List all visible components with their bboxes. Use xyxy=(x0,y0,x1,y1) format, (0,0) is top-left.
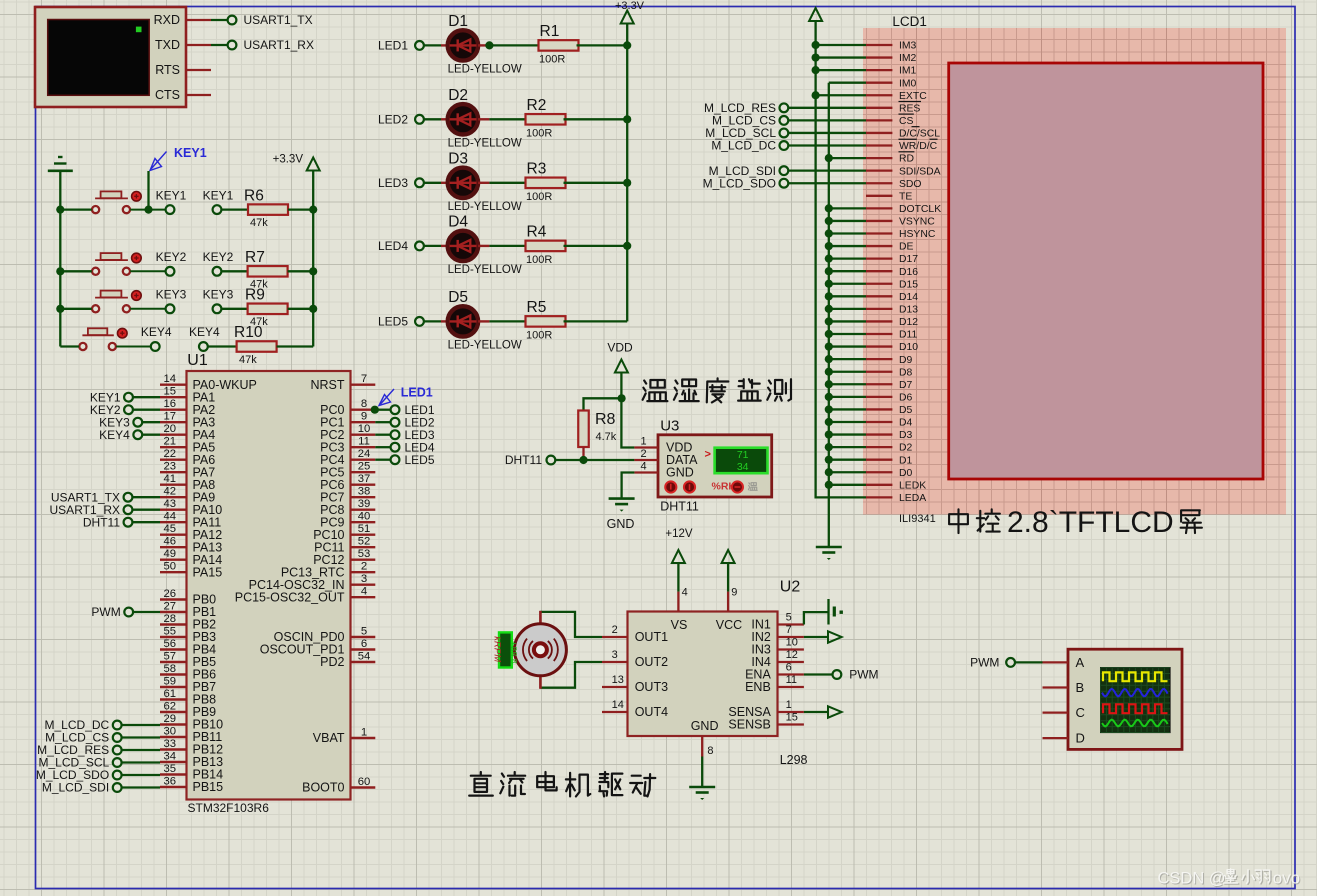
U1 pin PB9 (62) xyxy=(160,711,187,713)
svg-text:4.7k: 4.7k xyxy=(596,431,617,443)
svg-text:41: 41 xyxy=(164,473,177,485)
U1 pin PB11 (30) xyxy=(160,736,187,738)
U1 pin PC10 (51) xyxy=(351,534,376,536)
wire M_LCD_CS to LCD xyxy=(788,119,866,121)
svg-text:NRST: NRST xyxy=(310,378,344,392)
wire D2 xyxy=(829,446,866,448)
overline RD xyxy=(899,151,915,153)
LCD1 pin D0 xyxy=(866,471,892,473)
wire LCD GND rail xyxy=(829,83,866,547)
svg-text:51: 51 xyxy=(358,523,371,535)
svg-text:44: 44 xyxy=(164,511,177,523)
wire IM1 xyxy=(816,69,866,71)
terminal KEY3 (resistor side) xyxy=(213,304,222,313)
svg-text:33: 33 xyxy=(164,738,177,750)
svg-text:D/C/SCL: D/C/SCL xyxy=(899,129,940,140)
junction ground rail KEY3 row xyxy=(56,305,64,313)
svg-text:HSYNC: HSYNC xyxy=(899,229,936,240)
svg-text:5: 5 xyxy=(786,612,792,624)
terminal LED2 (U1 side) xyxy=(375,421,390,423)
svg-text:49: 49 xyxy=(164,548,177,560)
LCD1 pin HSYNC xyxy=(866,232,892,234)
svg-text:12: 12 xyxy=(786,649,798,661)
wire U3 GND to ground xyxy=(622,473,635,499)
svg-text:39: 39 xyxy=(358,498,371,510)
U2 pin SENSB (15) xyxy=(778,723,804,725)
svg-text:7: 7 xyxy=(361,373,367,385)
wire KEY2 row left xyxy=(60,270,92,272)
svg-text:34: 34 xyxy=(737,461,749,473)
svg-text:TE: TE xyxy=(899,191,912,202)
svg-text:D3: D3 xyxy=(448,150,468,167)
wire motor bottom to OUT2 xyxy=(540,662,602,688)
svg-text:>: > xyxy=(705,449,711,461)
junction GND rail D17 xyxy=(825,255,833,263)
scope trace B (blue) xyxy=(1102,689,1168,697)
wire HSYNC xyxy=(829,232,866,234)
svg-text:35: 35 xyxy=(164,763,177,775)
svg-text:53: 53 xyxy=(358,548,371,560)
svg-text:D4: D4 xyxy=(448,213,468,230)
svg-text:LED1: LED1 xyxy=(401,385,433,399)
LCD1 pin EXTC xyxy=(866,94,892,96)
svg-text:LED-YELLOW: LED-YELLOW xyxy=(448,264,522,276)
svg-text:LED-YELLOW: LED-YELLOW xyxy=(448,339,522,351)
svg-text:59: 59 xyxy=(164,676,177,688)
svg-text:U3: U3 xyxy=(660,418,679,435)
svg-text:DHT11: DHT11 xyxy=(505,453,542,467)
svg-text:D3: D3 xyxy=(899,430,913,441)
svg-text:LED-YELLOW: LED-YELLOW xyxy=(448,63,522,75)
arrow terminal IN2 xyxy=(828,631,842,642)
svg-text:KEY1: KEY1 xyxy=(174,146,207,160)
junction GND rail D11 xyxy=(825,330,833,338)
wire KEY4 row right xyxy=(116,346,151,348)
U3 body (DHT11) xyxy=(658,435,772,497)
oscilloscope pin C xyxy=(1043,711,1069,713)
svg-text:LED5: LED5 xyxy=(405,453,435,467)
LCD1 pin D11 xyxy=(866,333,892,335)
wire label LED1 (blue) xyxy=(381,389,395,404)
svg-text:DHT11: DHT11 xyxy=(660,500,699,514)
overline RES xyxy=(899,101,922,103)
wire M_LCD_RES to U1 xyxy=(122,749,160,751)
wire IN2 to arrow xyxy=(804,636,828,638)
U2 pin ENA (6) xyxy=(778,673,804,675)
svg-text:U2: U2 xyxy=(780,579,801,596)
U1 pin PA7 (23) xyxy=(160,471,187,473)
oscilloscope body xyxy=(1068,649,1182,749)
svg-text:22: 22 xyxy=(164,448,177,460)
wire KEY3 row right xyxy=(130,308,165,310)
wire LED3 to D3 xyxy=(424,182,441,184)
wire KEY1 row left xyxy=(60,208,92,210)
svg-text:KEY2: KEY2 xyxy=(156,250,187,264)
LCD1 pin D16 xyxy=(866,270,892,272)
U1 pin PC5 (25) xyxy=(351,471,376,473)
svg-text:DHT11: DHT11 xyxy=(83,515,120,529)
svg-text:+3.3V: +3.3V xyxy=(273,154,304,166)
svg-text:R7: R7 xyxy=(245,249,265,266)
svg-text:IM0: IM0 xyxy=(899,78,917,89)
svg-text:D15: D15 xyxy=(899,279,918,290)
wire KEY4 to U1 xyxy=(142,434,160,436)
svg-text:LED-YELLOW: LED-YELLOW xyxy=(448,201,522,213)
virtual terminal VT1 body xyxy=(35,7,186,107)
wire R1 to +3.3V rail xyxy=(577,44,628,46)
LCD1 pin LEDK xyxy=(866,484,892,486)
junction GND rail D6 xyxy=(825,393,833,401)
wire U2 GND to ground xyxy=(701,757,703,788)
svg-text:20: 20 xyxy=(164,423,177,435)
U1 pin BOOT0 (60) xyxy=(351,786,376,788)
wire D4 xyxy=(829,421,866,423)
svg-text:R6: R6 xyxy=(244,188,264,205)
wire M_LCD_RES to LCD xyxy=(788,107,866,109)
wire IN1 to battery xyxy=(804,612,828,624)
U1 pin PB3 (55) xyxy=(160,636,187,638)
svg-text:6: 6 xyxy=(361,638,367,650)
U1 pin OSCIN_PD0 (5) xyxy=(351,636,376,638)
junction GND rail RD xyxy=(825,154,833,162)
LCD1 pin RES xyxy=(866,107,892,109)
U1 pin PB12 (33) xyxy=(160,748,187,750)
U1 pin PC9 (40) xyxy=(351,521,376,523)
svg-text:55: 55 xyxy=(164,626,177,638)
arrow terminal SENSA xyxy=(828,706,842,717)
junction DATA R8 xyxy=(579,456,587,464)
wire LED5 to D5 xyxy=(424,320,441,322)
terminal LED1 (U1 side) xyxy=(375,409,390,411)
LCD1 pin D13 xyxy=(866,308,892,310)
svg-text:21: 21 xyxy=(164,436,177,448)
wire DE xyxy=(829,245,866,247)
wire M_LCD_CS to U1 xyxy=(122,736,160,738)
junction ground rail KEY1 row xyxy=(56,206,64,214)
terminal LED5 (U1 side) xyxy=(375,459,390,461)
svg-text:D16: D16 xyxy=(899,267,918,278)
scope trace A (yellow) xyxy=(1103,672,1168,681)
svg-text:R2: R2 xyxy=(527,97,547,114)
junction GND rail D2 xyxy=(825,443,833,451)
svg-text:30: 30 xyxy=(164,726,177,738)
junction GND rail D10 xyxy=(825,342,833,350)
U1 pin PB15 (36) xyxy=(160,786,187,788)
svg-text:SENSB: SENSB xyxy=(728,718,770,732)
U3 temperature dot xyxy=(732,481,743,492)
svg-text:8: 8 xyxy=(707,745,713,757)
svg-text:R10: R10 xyxy=(234,324,263,341)
U2 pin SENSA (1) xyxy=(778,711,804,713)
svg-text:15: 15 xyxy=(164,386,177,398)
svg-text:61: 61 xyxy=(164,688,177,700)
terminal KEY2 (resistor side) xyxy=(213,267,222,276)
svg-text:D2: D2 xyxy=(899,443,913,454)
wire D8 xyxy=(829,371,866,373)
svg-text:D7: D7 xyxy=(899,380,913,391)
svg-text:100R: 100R xyxy=(539,53,565,65)
wire IM2 xyxy=(816,56,866,58)
svg-text:11: 11 xyxy=(358,436,370,448)
svg-text:13: 13 xyxy=(612,674,624,686)
svg-text:2.8`TFTLCD: 2.8`TFTLCD xyxy=(1007,506,1174,539)
svg-text:LEDA: LEDA xyxy=(899,493,926,504)
LCD1 pin SDI/SDA xyxy=(866,170,892,172)
junction GND rail DE xyxy=(825,242,833,250)
svg-text:LED4: LED4 xyxy=(378,239,408,253)
LCD1 pin SDO xyxy=(866,182,892,184)
svg-text:ENB: ENB xyxy=(745,680,771,694)
svg-text:11: 11 xyxy=(786,674,797,686)
power +12V arrow VS xyxy=(672,550,685,563)
wire D7 xyxy=(829,383,866,385)
ground symbol for keys xyxy=(58,156,63,158)
svg-text:R3: R3 xyxy=(527,160,547,177)
junction GND rail D16 xyxy=(825,267,833,275)
svg-text:LED2: LED2 xyxy=(378,113,408,127)
svg-text:D6: D6 xyxy=(899,392,913,403)
resistor R5 xyxy=(526,316,566,327)
svg-text:D1: D1 xyxy=(899,455,913,466)
wire KEY1 to U1 xyxy=(133,396,160,398)
LCD1 pin IM3 xyxy=(866,44,892,46)
svg-text:TXD: TXD xyxy=(155,38,180,52)
wire +3.3V rail (keys) xyxy=(312,171,314,347)
power +12V arrow VCC xyxy=(722,550,735,563)
U1 pin PA3 (17) xyxy=(160,421,187,423)
svg-text:D4: D4 xyxy=(899,418,913,429)
svg-text:1: 1 xyxy=(786,699,792,711)
svg-text:IM3: IM3 xyxy=(899,41,917,52)
LCD1 pin D4 xyxy=(866,421,892,423)
svg-text:10: 10 xyxy=(358,423,371,435)
junction GND rail VSYNC xyxy=(825,217,833,225)
wire motor top to OUT1 xyxy=(540,612,602,637)
wire D5 to R5 xyxy=(478,320,489,322)
wire M_LCD_SCL to U1 xyxy=(122,761,160,763)
svg-text:62: 62 xyxy=(164,701,177,713)
wire TXD to USART1_RX terminal xyxy=(211,44,228,46)
junction GND rail D9 xyxy=(825,355,833,363)
wire LED4 to D4 xyxy=(424,245,441,247)
LCD1 pin IM0 xyxy=(866,82,892,84)
U1 pin OSCOUT_PD1 (6) xyxy=(351,648,376,650)
svg-text:4: 4 xyxy=(682,587,688,599)
svg-text:14: 14 xyxy=(164,373,177,385)
U2 pin IN4 (12) xyxy=(778,661,804,663)
svg-text:7: 7 xyxy=(786,624,792,636)
svg-text:100R: 100R xyxy=(526,127,552,139)
LCD1 pin D8 xyxy=(866,371,892,373)
U2 pin VCC (9) xyxy=(727,592,729,612)
svg-text:D5: D5 xyxy=(899,405,913,416)
resistor R3 xyxy=(526,178,566,189)
battery cell IN1 xyxy=(827,599,829,625)
svg-text:R1: R1 xyxy=(540,23,560,40)
svg-text:10: 10 xyxy=(786,637,798,649)
svg-text:RES: RES xyxy=(899,103,920,114)
svg-text:R8: R8 xyxy=(595,411,616,428)
wire LED2 to D2 xyxy=(424,118,441,120)
wire M_LCD_DC to U1 xyxy=(122,724,160,726)
svg-text:VCC: VCC xyxy=(716,618,742,632)
svg-text:EXTC: EXTC xyxy=(899,91,927,102)
svg-text:1: 1 xyxy=(361,727,367,739)
svg-text:USART1_RX: USART1_RX xyxy=(244,38,314,52)
LCD1 pin D5 xyxy=(866,408,892,410)
wire D1 to R1 xyxy=(478,44,489,46)
junction +3.3V rail R7 xyxy=(309,267,317,275)
wire RXD to USART1_TX terminal xyxy=(211,19,228,21)
motor xyxy=(514,624,566,676)
svg-text:A: A xyxy=(1076,655,1085,670)
U3 pin GND (4) xyxy=(634,471,658,473)
U1 pin PD2 (54) xyxy=(351,661,376,663)
svg-text:LED1: LED1 xyxy=(378,39,408,53)
wire KEY3 row left xyxy=(60,308,92,310)
svg-text:52: 52 xyxy=(358,536,371,548)
wire D2 to R2 xyxy=(478,118,489,120)
terminal KEY3 (button side) xyxy=(166,304,175,313)
junction PC0 LED1 node xyxy=(371,406,379,414)
wire VS arrow down xyxy=(677,563,679,592)
svg-text:D11: D11 xyxy=(899,330,918,341)
svg-text:SDI/SDA: SDI/SDA xyxy=(899,166,941,177)
push button KEY2 xyxy=(101,253,122,260)
U2 pin IN3 (10) xyxy=(778,648,804,650)
svg-text:RXD: RXD xyxy=(154,13,180,27)
svg-text:25: 25 xyxy=(358,461,371,473)
ground symbol DHT11 xyxy=(609,497,635,500)
junction LED rail row 3 xyxy=(623,179,631,187)
U1 pin PC8 (39) xyxy=(351,509,376,511)
U1 pin PA10 (43) xyxy=(160,509,187,511)
U3 wen label (gray) xyxy=(748,483,757,491)
svg-text:DE: DE xyxy=(899,242,914,253)
svg-text:KEY1: KEY1 xyxy=(203,188,234,202)
oscilloscope pin B xyxy=(1043,686,1069,688)
U1 pin PB10 (29) xyxy=(160,723,187,725)
wire +3.3V LED rail xyxy=(626,24,628,322)
wire M_LCD_SDI to U1 xyxy=(122,786,160,788)
label wenshidu jiance (temperature/humidity monitoring) xyxy=(643,380,668,401)
U3 display xyxy=(715,448,768,474)
wire SENSA to arrow xyxy=(804,711,828,713)
svg-text:38: 38 xyxy=(358,486,371,498)
LED D1 xyxy=(448,30,478,60)
wire R2 to +3.3V rail xyxy=(564,118,628,120)
svg-text:VBAT: VBAT xyxy=(313,731,345,745)
LCD1 pin DOTCLK xyxy=(866,207,892,209)
svg-text:29: 29 xyxy=(164,713,177,725)
wire KEY2 row right xyxy=(130,270,165,272)
svg-text:3: 3 xyxy=(612,649,618,661)
U1 pin PC0 (8) xyxy=(351,409,376,411)
junction GND rail D15 xyxy=(825,280,833,288)
svg-text:D14: D14 xyxy=(899,292,918,303)
U1 pin PA14 (49) xyxy=(160,559,187,561)
wire VCC arrow down xyxy=(727,563,729,592)
U1 pin PC4 (24) xyxy=(351,459,376,461)
svg-text:36: 36 xyxy=(164,776,177,788)
wire D5 xyxy=(829,408,866,410)
svg-text:BOOT0: BOOT0 xyxy=(302,781,344,795)
wire R10 to +3.3V rail xyxy=(277,345,314,347)
label zhiliu dianji qudong (DC motor drive) xyxy=(469,772,493,796)
resistor R9 xyxy=(248,304,288,315)
svg-text:2: 2 xyxy=(361,561,367,573)
wire LCD +3.3V rail xyxy=(816,21,866,497)
U1 pin PA12 (45) xyxy=(160,534,187,536)
U2 pin IN2 (7) xyxy=(778,636,804,638)
svg-text:kRPM: kRPM xyxy=(492,636,503,662)
svg-text:KEY4: KEY4 xyxy=(141,325,172,339)
wire LEDK xyxy=(829,484,866,486)
LCD1 pin CS xyxy=(866,119,892,121)
svg-text:D0: D0 xyxy=(899,468,913,479)
svg-text:26: 26 xyxy=(164,588,177,600)
U1 pin PB14 (35) xyxy=(160,773,187,775)
svg-text:IM2: IM2 xyxy=(899,53,917,64)
svg-text:LED-YELLOW: LED-YELLOW xyxy=(448,137,522,149)
svg-text:58: 58 xyxy=(164,663,177,675)
svg-text:17: 17 xyxy=(164,411,177,423)
svg-text:PWM: PWM xyxy=(849,668,878,682)
wire R4 to +3.3V rail xyxy=(564,245,628,247)
svg-text:D17: D17 xyxy=(899,254,918,265)
svg-text:50: 50 xyxy=(164,561,177,573)
svg-text:27: 27 xyxy=(164,601,177,613)
wire KEY1 label stem xyxy=(147,171,149,210)
svg-text:VDD: VDD xyxy=(607,341,633,355)
LCD1 pin VSYNC xyxy=(866,220,892,222)
wire KEY4 terminal to R10 xyxy=(208,345,237,347)
svg-text:D10: D10 xyxy=(899,342,918,353)
svg-text:37: 37 xyxy=(358,473,371,485)
wire VDD rail (DHT11) xyxy=(621,373,634,448)
junction after D1 xyxy=(485,41,493,49)
svg-text:SDO: SDO xyxy=(899,179,922,190)
wire D10 xyxy=(829,345,866,347)
LED D2 xyxy=(448,104,478,134)
svg-text:6: 6 xyxy=(786,662,792,674)
svg-text:GND: GND xyxy=(691,719,719,733)
wire D9 xyxy=(829,358,866,360)
junction GND rail D13 xyxy=(825,305,833,313)
op-amp U1 body (STM32F103R6) xyxy=(187,371,351,800)
svg-text:CS: CS xyxy=(899,116,914,127)
svg-text:GND: GND xyxy=(607,517,635,531)
U2 pin OUT1 (2) xyxy=(602,636,628,638)
svg-text:42: 42 xyxy=(164,486,177,498)
svg-text:KEY3: KEY3 xyxy=(203,288,234,302)
svg-text:24: 24 xyxy=(358,448,371,460)
svg-text:VS: VS xyxy=(671,618,688,632)
terminal KEY4 (button side) xyxy=(151,342,160,351)
svg-text:47k: 47k xyxy=(239,354,257,366)
svg-text:LED5: LED5 xyxy=(378,315,408,329)
svg-text:KEY2: KEY2 xyxy=(203,250,234,264)
resistor R6 xyxy=(248,204,288,215)
junction +3.3V rail IM2 xyxy=(812,53,820,61)
U1 pin PC7 (38) xyxy=(351,496,376,498)
U2 pin GND (8) xyxy=(701,736,703,757)
svg-text:PC15-OSC32_OUT: PC15-OSC32_OUT xyxy=(235,590,345,604)
svg-text:KEY3: KEY3 xyxy=(156,288,187,302)
svg-text:STM32F103R6: STM32F103R6 xyxy=(188,801,270,815)
svg-text:47k: 47k xyxy=(250,217,268,229)
svg-text:4: 4 xyxy=(361,586,367,598)
